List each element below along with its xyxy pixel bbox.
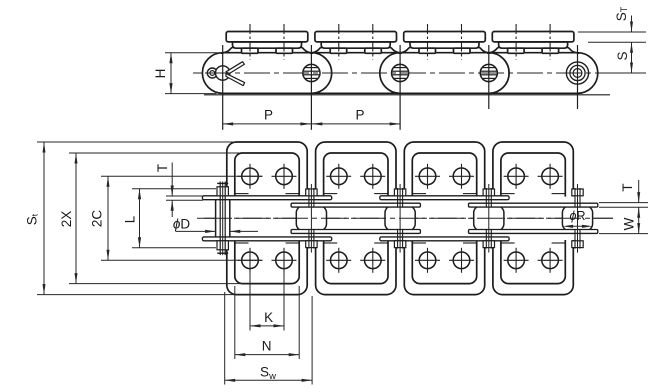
bushing (plan view) at connecting pin 1 xyxy=(216,199,230,238)
dimension K (hole spacing) xyxy=(249,267,251,331)
pin 2 (plan view) xyxy=(308,188,310,207)
plan view centerline over rollers xyxy=(204,217,613,219)
attachment A3 hole centerlines (side view) xyxy=(427,24,429,60)
chain body mask (plan view) xyxy=(198,197,660,240)
pin 3 vertical centerline (side view) xyxy=(399,45,401,130)
svg-text:K: K xyxy=(264,310,273,325)
pin 1 vertical centerline (side view) xyxy=(222,45,224,130)
dimension H xyxy=(165,52,218,54)
pin 4 (plan view) xyxy=(485,188,487,207)
pin washers (plan view) at pin 2 xyxy=(306,189,317,196)
pin 2 vertical centerline (side view) xyxy=(310,45,312,130)
pin 5 (plan view) xyxy=(574,188,576,207)
side view chain horizontal centerline xyxy=(193,72,646,74)
attachment A4 bolt holes (plan view) xyxy=(508,168,525,185)
pin washers (plan view) at pin 4 xyxy=(483,189,494,196)
outer link plates (plan view, link 1) xyxy=(202,196,331,200)
svg-text:P: P xyxy=(355,108,364,123)
attachment A2 bolt holes (plan view) xyxy=(331,168,348,185)
svg-text:N: N xyxy=(262,339,272,354)
dimension W (inner width) xyxy=(599,233,648,235)
roller (side view) at pin 3 xyxy=(392,64,409,81)
cotter ring (side view left end) xyxy=(207,68,217,78)
dimension 2X xyxy=(69,152,240,154)
roller (side view) at pin 4 xyxy=(480,64,497,81)
bent attachment A4 (plan view) xyxy=(493,142,573,295)
outer link plate (side view, link 1) xyxy=(202,53,331,94)
roller (plan view) at pin 3 xyxy=(385,206,415,231)
dimensions St and S (attachment plate height, right side) xyxy=(578,31,646,33)
attachment A2 hole centerlines (side view) xyxy=(338,24,340,60)
bent attachment A3 (plan view) xyxy=(404,142,484,295)
side view centerline over plates xyxy=(205,72,645,74)
svg-text:ϕR: ϕR xyxy=(570,209,586,223)
pin 5 vertical centerline (side view) xyxy=(577,45,579,109)
svg-text:L: L xyxy=(123,215,138,223)
dimension L xyxy=(132,188,216,190)
inner link plates (plan view, link 4) xyxy=(469,203,598,207)
svg-text:T: T xyxy=(620,183,635,191)
attachment A1 bolt holes (plan view) xyxy=(242,168,259,185)
svg-text:H: H xyxy=(153,69,168,79)
dimension 2C (hole row spread) xyxy=(101,175,262,177)
bent attachment A2 (plan view) xyxy=(316,142,396,295)
roller (plan view) at pin 2 xyxy=(296,206,326,231)
pin 3 (plan view) xyxy=(397,188,399,207)
pin washers (plan view) at pin 3 xyxy=(394,189,405,196)
inner link plate (side view, link 4) xyxy=(469,53,598,94)
roller-bush-pin circles (side view right end) xyxy=(566,62,588,84)
svg-text:P: P xyxy=(264,108,273,123)
outer link plate (side view, link 3) xyxy=(380,53,509,94)
svg-text:2C: 2C xyxy=(90,210,105,228)
svg-text:W: W xyxy=(622,217,637,230)
bent attachment A2 (side view) xyxy=(310,32,402,54)
roller (plan view) at pin 4 xyxy=(474,206,504,231)
attachment A4 hole centerlines (side view) xyxy=(515,24,517,60)
plan view chain centerline xyxy=(197,217,613,219)
svg-text:2X: 2X xyxy=(59,211,74,228)
pin washers (plan view) at pin 5 xyxy=(572,189,583,196)
svg-text:ϕD: ϕD xyxy=(173,217,191,232)
connecting pin with cotter legs (side view left end) xyxy=(216,66,230,80)
roller (side view) at pin 2 xyxy=(303,64,320,81)
inner link plates (plan view, link 2) xyxy=(291,203,420,207)
bent attachment A4 (side view) xyxy=(487,32,579,54)
far-side plate lower edge (side view) xyxy=(204,94,610,96)
bent attachment A1 (side view) xyxy=(221,32,313,54)
roller (plan view) at pin 5 xyxy=(562,206,592,231)
svg-text:S: S xyxy=(615,51,630,60)
inner link plate (side view, link 2) xyxy=(291,53,420,94)
outer link plates (plan view, link 3) xyxy=(380,196,509,200)
cotter pin ticks (plan view left end) xyxy=(217,182,228,184)
pin washers (plan view) at pin 1 xyxy=(217,187,228,196)
bent attachment A3 (side view) xyxy=(399,32,491,54)
attachment A1 hole centerlines (side view) xyxy=(249,24,251,60)
dimension T (left, plate thickness) xyxy=(166,195,203,197)
svg-text:T: T xyxy=(155,164,170,172)
attachment A3 bolt holes (plan view) xyxy=(419,168,436,185)
pin 1 (plan view) xyxy=(219,182,221,256)
bent attachment A1 (plan view) xyxy=(227,142,307,295)
dimension N (attachment plate width) xyxy=(234,286,236,359)
dimension S (overall attachment width) xyxy=(37,141,235,143)
dimension T (right, plate thickness) xyxy=(599,202,648,204)
pin 4 vertical centerline (side view) xyxy=(488,45,490,109)
dimension P (pitch, two segments) xyxy=(223,123,400,125)
dimension Sw (overall bent width) xyxy=(224,292,226,385)
